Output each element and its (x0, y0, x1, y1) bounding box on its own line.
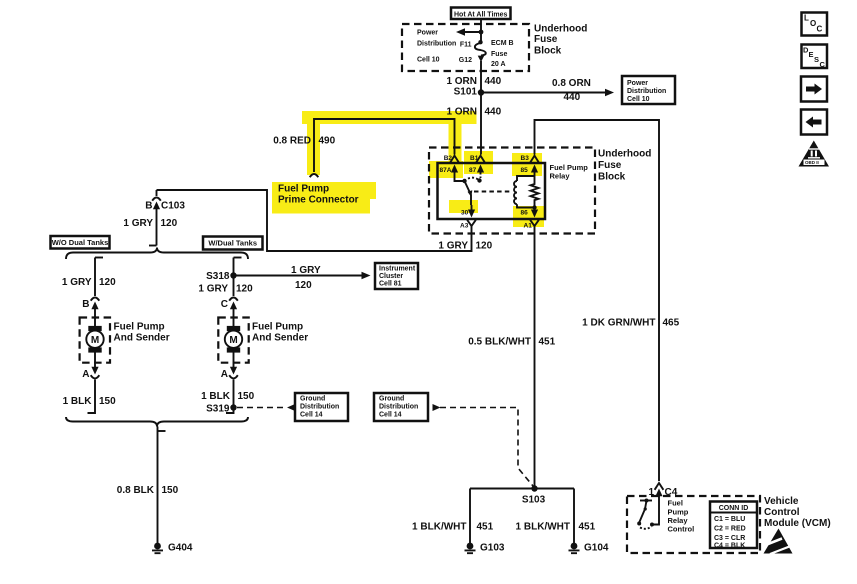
svg-text:1 GRY: 1 GRY (62, 277, 92, 288)
svg-text:1 BLK/WHT: 1 BLK/WHT (516, 522, 570, 533)
svg-text:C4 = BLK: C4 = BLK (714, 543, 745, 550)
svg-text:C: C (820, 60, 826, 69)
svg-text:120: 120 (236, 284, 253, 295)
svg-text:S101: S101 (454, 87, 478, 98)
svg-text:87A: 87A (440, 167, 452, 174)
svg-text:A3: A3 (460, 223, 469, 230)
svg-text:Module (VCM): Module (VCM) (764, 518, 831, 529)
svg-text:Power: Power (417, 30, 438, 37)
svg-text:Underhood: Underhood (598, 148, 651, 159)
svg-text:85: 85 (521, 167, 529, 174)
svg-text:Relay: Relay (550, 172, 571, 181)
svg-text:S: S (814, 55, 819, 64)
svg-text:451: 451 (539, 337, 556, 348)
svg-text:Hot At All Times: Hot At All Times (454, 11, 508, 18)
svg-text:F11: F11 (460, 42, 472, 49)
svg-text:A1: A1 (524, 223, 533, 230)
svg-text:1 BLK: 1 BLK (201, 391, 231, 402)
svg-text:1 GRY: 1 GRY (123, 218, 153, 229)
svg-text:1 BLK/WHT: 1 BLK/WHT (412, 522, 466, 533)
svg-text:Cell 14: Cell 14 (379, 412, 402, 419)
svg-text:Underhood: Underhood (534, 23, 587, 34)
svg-text:Cell 10: Cell 10 (627, 96, 650, 103)
svg-text:Distribution: Distribution (627, 88, 666, 95)
svg-text:And Sender: And Sender (252, 333, 308, 344)
svg-text:86: 86 (521, 210, 529, 217)
svg-text:0.8 ORN: 0.8 ORN (552, 78, 591, 89)
svg-text:Cell 10: Cell 10 (417, 57, 440, 64)
svg-text:150: 150 (162, 485, 179, 496)
svg-text:Cell 14: Cell 14 (300, 412, 323, 419)
svg-text:465: 465 (663, 318, 680, 329)
svg-text:440: 440 (485, 76, 502, 87)
svg-text:0.5 BLK/WHT: 0.5 BLK/WHT (468, 337, 531, 348)
svg-text:1: 1 (648, 487, 654, 498)
svg-text:451: 451 (579, 522, 596, 533)
svg-text:Instrument: Instrument (379, 266, 416, 273)
svg-text:ECM B: ECM B (491, 40, 514, 47)
svg-text:30: 30 (461, 210, 469, 217)
svg-text:Fuel Pump: Fuel Pump (114, 322, 165, 333)
svg-text:Fuse: Fuse (598, 160, 622, 171)
svg-text:120: 120 (99, 277, 116, 288)
svg-text:20 A: 20 A (491, 61, 506, 68)
svg-text:150: 150 (238, 391, 255, 402)
svg-text:Vehicle: Vehicle (764, 496, 799, 507)
svg-text:0.8 BLK: 0.8 BLK (117, 485, 155, 496)
svg-text:1 GRY: 1 GRY (291, 265, 321, 276)
svg-text:B: B (82, 299, 89, 310)
svg-text:Cell 81: Cell 81 (379, 281, 402, 288)
svg-text:440: 440 (485, 106, 502, 117)
svg-text:C103: C103 (161, 201, 185, 212)
svg-text:E: E (809, 50, 814, 59)
svg-text:M: M (91, 335, 99, 346)
svg-text:440: 440 (564, 92, 581, 103)
svg-text:1 GRY: 1 GRY (438, 241, 468, 252)
svg-text:1 ORN: 1 ORN (446, 106, 477, 117)
svg-text:W/Dual Tanks: W/Dual Tanks (208, 239, 257, 248)
svg-text:Fuse: Fuse (534, 34, 558, 45)
svg-text:1 BLK: 1 BLK (63, 396, 93, 407)
svg-text:G12: G12 (459, 57, 472, 64)
svg-text:G104: G104 (584, 543, 609, 554)
svg-text:S318: S318 (206, 271, 230, 282)
svg-text:Fuel: Fuel (668, 499, 683, 508)
svg-text:C1 = BLU: C1 = BLU (714, 516, 745, 523)
svg-text:And Sender: And Sender (114, 333, 170, 344)
svg-text:451: 451 (477, 522, 494, 533)
svg-text:Distribution: Distribution (300, 404, 339, 411)
svg-text:C2 = RED: C2 = RED (714, 526, 746, 533)
svg-text:A: A (82, 369, 89, 380)
svg-text:B2: B2 (444, 155, 453, 162)
svg-text:120: 120 (161, 218, 178, 229)
svg-text:B1: B1 (470, 155, 479, 162)
svg-text:C: C (221, 299, 228, 310)
svg-text:120: 120 (476, 241, 493, 252)
svg-text:B3: B3 (521, 155, 530, 162)
svg-text:L: L (804, 14, 809, 23)
svg-text:Fuel Pump: Fuel Pump (252, 322, 303, 333)
svg-text:B: B (145, 201, 152, 212)
svg-text:OBD II: OBD II (805, 160, 819, 165)
svg-text:G103: G103 (480, 543, 505, 554)
svg-text:CONN ID: CONN ID (719, 505, 749, 512)
svg-text:C3 = CLR: C3 = CLR (714, 535, 745, 542)
svg-text:150: 150 (99, 396, 116, 407)
svg-text:Control: Control (668, 525, 695, 534)
svg-text:Fuse: Fuse (491, 51, 507, 58)
svg-text:A: A (221, 369, 228, 380)
svg-text:C4: C4 (665, 487, 678, 498)
svg-text:G404: G404 (168, 543, 193, 554)
svg-text:Ground: Ground (379, 396, 404, 403)
svg-text:S103: S103 (522, 495, 546, 506)
svg-text:O: O (810, 19, 816, 28)
svg-text:Ground: Ground (300, 396, 325, 403)
svg-text:Distribution: Distribution (379, 404, 418, 411)
svg-text:Fuel Pump: Fuel Pump (278, 184, 329, 195)
svg-text:Power: Power (627, 80, 648, 87)
svg-text:Block: Block (534, 46, 562, 57)
svg-text:W/O Dual Tanks: W/O Dual Tanks (52, 238, 109, 247)
svg-text:C: C (817, 25, 823, 34)
svg-text:M: M (229, 335, 237, 346)
svg-text:0.8 RED: 0.8 RED (273, 135, 311, 146)
svg-text:120: 120 (295, 280, 312, 291)
svg-text:Control: Control (764, 507, 800, 518)
svg-text:490: 490 (319, 135, 336, 146)
svg-text:Cluster: Cluster (379, 273, 403, 280)
svg-text:S319: S319 (206, 404, 230, 415)
svg-text:1 DK GRN/WHT: 1 DK GRN/WHT (582, 318, 655, 329)
svg-text:Block: Block (598, 171, 626, 182)
svg-text:Prime Connector: Prime Connector (278, 195, 359, 206)
svg-text:Distribution: Distribution (417, 41, 456, 48)
svg-text:1 GRY: 1 GRY (198, 284, 228, 295)
svg-text:87: 87 (469, 167, 477, 174)
